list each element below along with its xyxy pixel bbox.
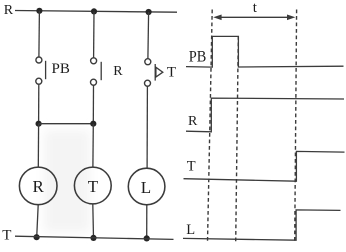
contact T actuator bar [154,64,156,81]
waveform L trace [183,210,341,240]
wire holding contact cross connection [39,123,94,125]
contact R (holding contact, upper terminal) [91,58,97,64]
contact R actuator bar [100,62,102,80]
wire branch2 lower [92,124,94,167]
lamp L [128,168,165,205]
contact R (lower terminal) [91,79,97,85]
wire branch1 lower [37,124,39,167]
contact T timer triangle [156,67,163,77]
wire branch3 upper [147,12,150,59]
dashed guide line 1 (PB press) [208,10,213,243]
label T (waveform) [187,158,196,174]
junction dot rail T / branch 1 [34,234,40,240]
junction dot rail R / branch 3 [146,9,152,15]
svg-text:T: T [187,158,196,174]
wire branch2 middle [92,85,94,124]
label R (waveform) [188,114,198,129]
label R (contact) [113,64,123,79]
label PB [52,61,70,77]
contact T (timer contact, upper terminal) [145,59,151,65]
junction dot rail R / branch 1 [36,8,42,14]
dimension arrow t [213,15,295,21]
scan shadow patch [44,130,90,232]
junction dot rail T / branch 3 [144,235,150,241]
wire branch1 middle [38,84,40,124]
wire branch2 upper [93,11,95,58]
node T (return rail label) [2,228,11,244]
waveform T trace [184,151,345,181]
wire branch1 bottom [37,205,39,238]
svg-text:R: R [188,114,198,129]
wire branch2 bottom [92,204,95,238]
contact T (lower terminal) [145,80,151,86]
wire branch3 middle [146,86,148,168]
wire branch3 bottom [146,205,148,239]
svg-text:R: R [33,177,45,196]
contact PB (pushbutton, upper terminal) [36,57,42,63]
wire bottom rail T [15,236,174,239]
wire top rail R [15,11,177,13]
svg-text:PB: PB [52,61,70,77]
label L (waveform) [186,222,195,238]
svg-text:L: L [186,222,195,238]
waveform R trace [186,98,344,132]
contact PB (lower terminal) [36,78,42,84]
svg-text:PB: PB [189,48,207,65]
junction dot branch2 / holding wire [90,121,96,127]
node R (supply rail label) [4,3,14,18]
svg-text:T: T [167,64,176,80]
label PB (waveform) [189,48,207,65]
label t (time interval) [253,0,258,16]
svg-text:T: T [88,177,99,196]
dashed guide line 3 (timer timeout) [295,10,297,243]
label T (contact) [167,64,176,80]
junction dot rail R / branch 2 [91,8,97,14]
junction dot rail T / branch 2 [90,235,96,241]
contact PB actuator bar [45,61,47,79]
wire branch1 upper [38,11,41,57]
dashed guide line 2 (PB release) [236,36,239,242]
svg-text:T: T [2,228,11,244]
junction dot branch1 / holding wire [36,121,42,127]
svg-text:R: R [113,64,123,79]
svg-text:L: L [141,178,151,197]
relay coil R [19,167,57,205]
svg-text:R: R [4,3,14,18]
waveform PB trace [186,36,344,67]
timer coil T [74,167,111,204]
